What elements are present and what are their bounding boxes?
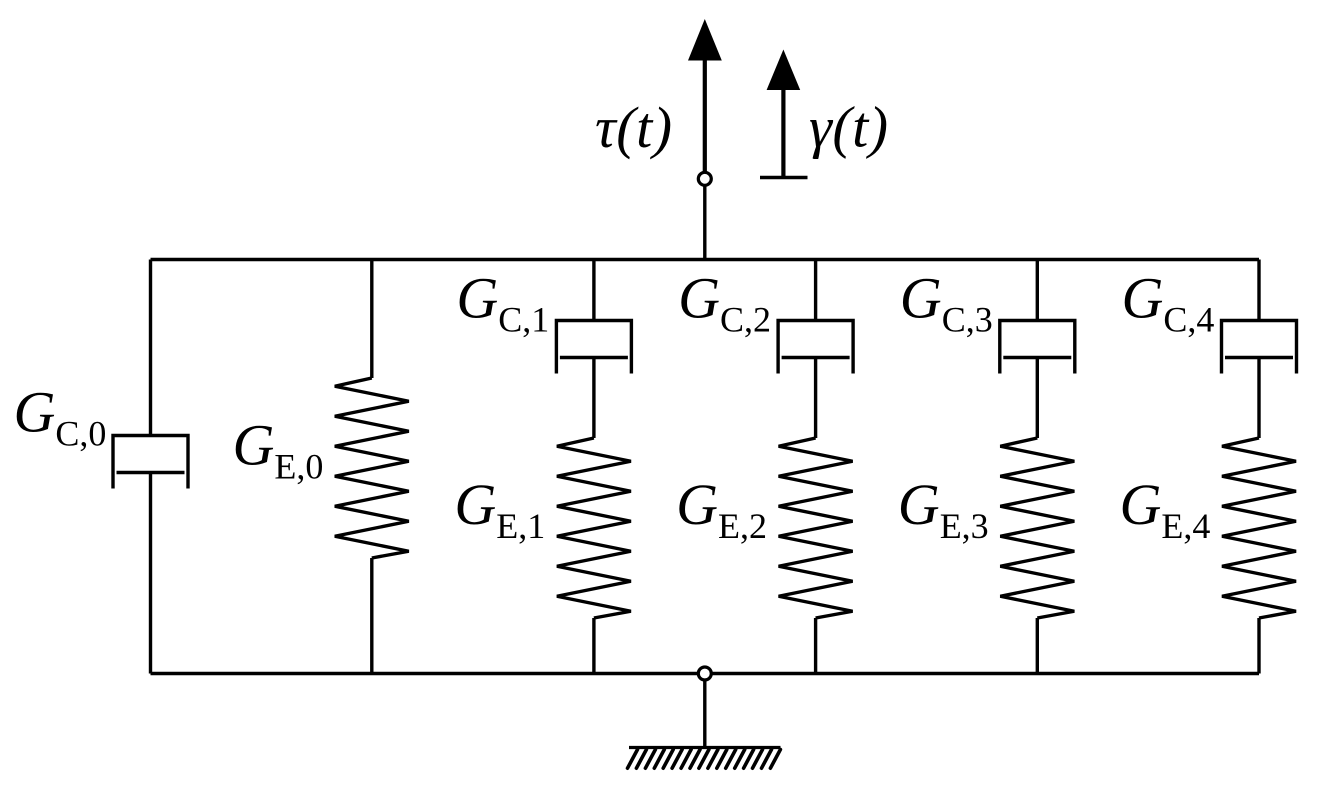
damper G_C,3 piston plate bbox=[1003, 356, 1071, 359]
svg-text:τ(t): τ(t) bbox=[595, 95, 673, 160]
wire branch 3 middle link bbox=[1036, 358, 1039, 439]
svg-text:GE,0: GE,0 bbox=[233, 412, 324, 486]
wire branch 2 bottom lead bbox=[814, 618, 817, 674]
spring G_E,0 zigzag bbox=[335, 378, 409, 558]
wire top node to rail bbox=[703, 179, 706, 260]
damper G_C,1 cylinder bbox=[556, 321, 631, 374]
wire left rail upper bbox=[149, 260, 152, 436]
wire G_E,0 top lead bbox=[370, 260, 373, 379]
damper G_C,3 cylinder bbox=[1000, 321, 1075, 374]
wire left rail lower bbox=[149, 473, 152, 674]
node: top terminal circle bbox=[698, 172, 711, 185]
wire branch 2 middle link bbox=[814, 358, 817, 439]
spring G_E,3 zigzag bbox=[1000, 438, 1074, 618]
spring G_E,2 zigzag bbox=[779, 438, 853, 618]
stress arrow tau shaft bbox=[703, 60, 707, 173]
damper G_C,2 piston plate bbox=[782, 356, 850, 359]
spring G_E,1 zigzag bbox=[557, 438, 631, 618]
wire branch 4 middle link bbox=[1257, 358, 1260, 439]
svg-text:GE,1: GE,1 bbox=[454, 472, 545, 546]
svg-text:GE,3: GE,3 bbox=[898, 472, 989, 546]
svg-text:GC,2: GC,2 bbox=[678, 265, 771, 339]
node: bottom terminal circle bbox=[698, 667, 711, 680]
damper G_C,2 cylinder bbox=[778, 321, 853, 374]
svg-text:GC,0: GC,0 bbox=[14, 380, 107, 454]
strain arrow gamma shaft bbox=[781, 88, 785, 178]
strain arrow gamma head bbox=[767, 50, 801, 91]
svg-text:GE,2: GE,2 bbox=[676, 472, 767, 546]
damper G_C,4 piston plate bbox=[1225, 356, 1293, 359]
damper G_C,1 piston plate bbox=[560, 356, 628, 359]
wire ground stem bbox=[703, 674, 706, 748]
svg-text:GC,3: GC,3 bbox=[900, 265, 993, 339]
wire branch 1 bottom lead bbox=[592, 618, 595, 674]
spring G_E,4 zigzag bbox=[1222, 438, 1296, 618]
wire branch 3 bottom lead bbox=[1036, 618, 1039, 674]
wire branch 1 middle link bbox=[592, 358, 595, 439]
wire branch 4 top lead bbox=[1257, 260, 1260, 321]
svg-text:GC,4: GC,4 bbox=[1122, 265, 1215, 339]
stress arrow tau head bbox=[688, 19, 722, 61]
wire G_E,0 bottom lead bbox=[370, 558, 373, 674]
svg-text:GC,1: GC,1 bbox=[456, 265, 549, 339]
wire branch 2 top lead bbox=[814, 260, 817, 321]
damper G_C,0 piston plate bbox=[117, 471, 185, 474]
svg-text:GE,4: GE,4 bbox=[1120, 472, 1211, 546]
damper G_C,4 cylinder bbox=[1222, 321, 1297, 374]
wire branch 1 top lead bbox=[592, 260, 595, 321]
ground bar bbox=[629, 746, 781, 749]
damper G_C,0 cylinder bbox=[113, 436, 188, 489]
ground hatching bbox=[628, 750, 781, 769]
strain arrow gamma reference bar bbox=[760, 176, 808, 179]
svg-text:γ(t): γ(t) bbox=[809, 95, 889, 160]
top rail wire bbox=[151, 258, 1260, 261]
wire branch 3 top lead bbox=[1036, 260, 1039, 321]
wire branch 4 bottom lead bbox=[1257, 618, 1260, 674]
bottom rail wire bbox=[151, 672, 1260, 675]
